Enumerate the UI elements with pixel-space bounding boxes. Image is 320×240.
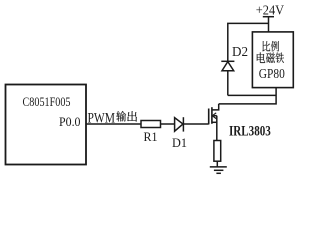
svg-text:D1: D1 (172, 135, 187, 150)
MOSFET Q1 gate plate (208, 109, 210, 125)
+24V terminal bar (263, 16, 274, 18)
ground bar 1 (210, 166, 227, 168)
wire: D2 anode down (227, 71, 229, 96)
wire: +24V to solenoid box (268, 17, 270, 32)
MOSFET Q1 drain stub (212, 104, 219, 110)
resistor R2 body (source resistor) (214, 141, 221, 162)
wire: drain up and right to load (219, 88, 276, 104)
resistor R1 body (141, 121, 161, 128)
wire: D1 to gate of Q1 (183, 123, 208, 125)
diode D1 cathode bar (182, 117, 184, 131)
label hanzi shu of PWM输出 (116, 111, 126, 122)
label hanzi ci of 电磁铁 (266, 53, 275, 63)
svg-text:+24V: +24V (256, 3, 284, 18)
MOSFET Q1 body arrow stub (214, 115, 217, 117)
svg-text:GP80: GP80 (259, 66, 285, 81)
svg-text:D2: D2 (232, 44, 248, 59)
wire: R2 to ground (216, 161, 218, 167)
svg-text:C8051F005: C8051F005 (23, 95, 71, 109)
wire: D2 anode to drain net (228, 94, 276, 96)
label hanzi dian of 电磁铁 (257, 52, 265, 63)
MOSFET Q1 channel plate (211, 107, 213, 124)
svg-text:IRL3803: IRL3803 (229, 124, 271, 140)
solenoid load box GP80 (252, 32, 293, 88)
wire: source vertical to sense resistor (216, 116, 218, 141)
wire: D2 cathode branch from +24V (228, 23, 269, 61)
label hanzi chu of PWM输出 (127, 111, 137, 121)
diode D2 cathode bar (221, 60, 234, 62)
MCU box U1 C8051F005 (6, 85, 87, 165)
wire: P0.0 output to R1 (86, 123, 141, 125)
ground bar 3 (216, 172, 221, 174)
svg-text:P0.0: P0.0 (59, 115, 81, 129)
ground bar 2 (214, 169, 224, 171)
diode D2 triangle (222, 62, 234, 71)
MOSFET Q1 body arrowhead (212, 113, 216, 119)
svg-text:PWM: PWM (88, 110, 116, 126)
wire: R1 to D1 (161, 123, 175, 125)
label hanzi tie of 电磁铁 (276, 52, 284, 63)
MOSFET Q1 source stub (212, 121, 217, 123)
label hanzi li of 比例 (271, 41, 279, 52)
svg-text:R1: R1 (144, 130, 158, 144)
label hanzi bi of 比例 (263, 41, 271, 51)
diode D1 triangle (175, 118, 183, 132)
